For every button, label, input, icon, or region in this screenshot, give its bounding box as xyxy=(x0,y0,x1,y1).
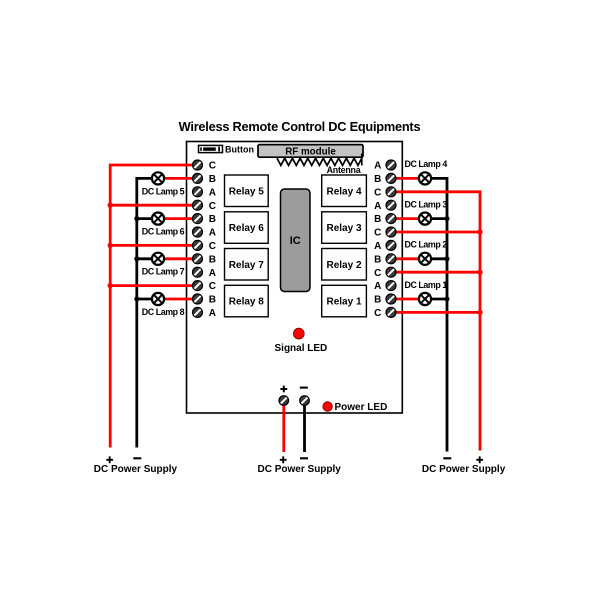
wire: DC Lamp 7 to B terminal xyxy=(163,257,194,260)
svg-text:A: A xyxy=(209,228,216,239)
svg-text:B: B xyxy=(209,174,216,185)
svg-text:DC Lamp 3: DC Lamp 3 xyxy=(405,199,448,209)
terminal B (left group 5) xyxy=(193,173,217,185)
lamp DC Lamp 8 xyxy=(142,293,185,317)
svg-text:RF module: RF module xyxy=(285,147,336,158)
svg-text:DC Power Supply: DC Power Supply xyxy=(422,464,506,475)
svg-text:C: C xyxy=(209,201,216,212)
terminal A (right group 4) xyxy=(374,160,396,172)
svg-text:C: C xyxy=(374,187,381,198)
svg-text:B: B xyxy=(374,214,381,225)
terminal A (right group 3) xyxy=(374,200,396,212)
junction red bus left xyxy=(108,203,113,208)
wire: power + red middle xyxy=(282,401,285,453)
terminal A (left group 7) xyxy=(193,267,217,279)
lamp DC Lamp 7 xyxy=(142,253,185,277)
lamp DC Lamp 5 xyxy=(142,172,185,196)
button S1 xyxy=(199,144,255,154)
wire: DC Lamp 8 to B terminal xyxy=(163,298,194,301)
svg-text:A: A xyxy=(374,281,381,292)
svg-text:IC: IC xyxy=(290,235,301,247)
power terminal + xyxy=(279,386,289,406)
svg-text:C: C xyxy=(209,161,216,172)
svg-text:Relay 7: Relay 7 xyxy=(229,260,264,271)
wire: DC Lamp 3 to black bus xyxy=(430,217,447,220)
junction black bus left xyxy=(134,297,139,302)
svg-text:Relay 6: Relay 6 xyxy=(229,223,264,234)
DC power supply left xyxy=(94,456,178,475)
relay K6 xyxy=(225,212,269,244)
svg-text:Relay 3: Relay 3 xyxy=(326,223,361,234)
terminal C (right group 4) xyxy=(374,187,396,199)
wire: red C-row feed left xyxy=(110,204,194,207)
terminal B (right group 3) xyxy=(374,214,396,226)
lamp DC Lamp 2 xyxy=(405,240,448,265)
terminal C (left group 6) xyxy=(193,200,217,212)
terminal A (left group 6) xyxy=(193,227,217,239)
wire: DC Lamp 6 to B terminal xyxy=(163,217,194,220)
power LED D2 xyxy=(323,402,387,413)
wire: black negative bus left xyxy=(137,178,153,447)
lamp DC Lamp 3 xyxy=(405,199,448,224)
svg-text:Relay 1: Relay 1 xyxy=(326,297,361,308)
svg-text:A: A xyxy=(209,268,216,279)
svg-text:C: C xyxy=(374,228,381,239)
board outline xyxy=(187,142,403,414)
terminal C (right group 3) xyxy=(374,227,396,239)
wire: B terminal to DC Lamp 3 xyxy=(395,217,420,220)
relay K2 xyxy=(322,249,367,281)
wire: red C-row feed left xyxy=(110,244,194,247)
terminal B (right group 4) xyxy=(374,173,396,185)
lamp DC Lamp 4 xyxy=(405,159,448,184)
svg-text:DC Lamp 2: DC Lamp 2 xyxy=(405,240,448,250)
relay K7 xyxy=(225,249,269,281)
svg-text:DC Lamp 5: DC Lamp 5 xyxy=(142,186,185,196)
svg-text:Power LED: Power LED xyxy=(335,402,388,413)
terminal C (left group 7) xyxy=(193,240,217,252)
RF module U2 xyxy=(258,145,363,158)
svg-text:Antenna: Antenna xyxy=(327,165,361,175)
svg-text:DC Lamp 6: DC Lamp 6 xyxy=(142,227,185,237)
terminal A (left group 5) xyxy=(193,187,217,199)
terminal C (left group 8) xyxy=(193,281,217,293)
terminal C (right group 1) xyxy=(374,307,396,319)
svg-text:Button: Button xyxy=(225,144,254,154)
terminal C (right group 2) xyxy=(374,267,396,279)
wire: B terminal to DC Lamp 4 xyxy=(395,177,420,180)
svg-text:A: A xyxy=(209,308,216,319)
svg-text:B: B xyxy=(209,295,216,306)
signal LED D1 xyxy=(275,328,328,354)
wire: DC Lamp 6 to black bus xyxy=(137,217,153,220)
svg-text:DC Lamp 8: DC Lamp 8 xyxy=(142,307,185,317)
terminal B (right group 2) xyxy=(374,254,396,266)
junction black bus right xyxy=(445,297,450,302)
svg-text:Signal LED: Signal LED xyxy=(275,343,328,354)
wire: red positive bus right xyxy=(395,192,480,451)
svg-text:Relay 8: Relay 8 xyxy=(229,297,264,308)
svg-text:Wireless Remote Control DC Equ: Wireless Remote Control DC Equipments xyxy=(179,119,421,134)
junction red bus left xyxy=(108,283,113,288)
wire: B terminal to DC Lamp 2 xyxy=(395,257,420,260)
svg-text:Relay 2: Relay 2 xyxy=(326,260,361,271)
svg-text:C: C xyxy=(374,268,381,279)
svg-text:C: C xyxy=(209,241,216,252)
svg-text:C: C xyxy=(374,308,381,319)
svg-text:DC Lamp 4: DC Lamp 4 xyxy=(405,159,448,169)
svg-text:Relay 5: Relay 5 xyxy=(229,186,264,197)
svg-text:Relay 4: Relay 4 xyxy=(326,186,361,197)
svg-text:A: A xyxy=(374,201,381,212)
wire: red C-row feed right xyxy=(395,311,480,314)
wire: DC Lamp 1 to black bus xyxy=(430,298,447,301)
wire: DC Lamp 7 to black bus xyxy=(137,257,153,260)
svg-text:DC Lamp 1: DC Lamp 1 xyxy=(405,280,448,290)
power terminal - xyxy=(300,388,310,406)
lamp DC Lamp 6 xyxy=(142,213,185,237)
IC U1 xyxy=(281,189,311,292)
junction black bus left xyxy=(134,256,139,261)
relay K1 xyxy=(322,285,367,317)
svg-text:A: A xyxy=(374,241,381,252)
svg-text:B: B xyxy=(374,254,381,265)
relay K4 xyxy=(322,175,367,207)
terminal B (left group 8) xyxy=(193,294,217,306)
wire: red C-row feed right xyxy=(395,231,480,234)
wire: DC Lamp 8 to black bus xyxy=(137,298,153,301)
terminal A (left group 8) xyxy=(193,307,217,319)
wire: red positive bus left xyxy=(110,165,194,448)
wire: black negative bus right xyxy=(430,178,447,451)
relay K5 xyxy=(225,175,269,207)
svg-text:C: C xyxy=(209,281,216,292)
wire: B terminal to DC Lamp 1 xyxy=(395,298,420,301)
DC power supply right xyxy=(422,456,506,475)
wire: power - black middle xyxy=(303,401,306,453)
terminal B (left group 6) xyxy=(193,214,217,226)
junction red bus right xyxy=(477,310,482,315)
junction red bus right xyxy=(477,229,482,234)
svg-text:B: B xyxy=(374,174,381,185)
relay K8 xyxy=(225,285,269,317)
svg-text:DC Power Supply: DC Power Supply xyxy=(94,464,178,475)
svg-text:DC Lamp 7: DC Lamp 7 xyxy=(142,267,185,277)
wire: DC Lamp 5 to B terminal xyxy=(163,177,194,180)
terminal A (right group 2) xyxy=(374,240,396,252)
wire: DC Lamp 2 to black bus xyxy=(430,257,447,260)
svg-text:DC Power Supply: DC Power Supply xyxy=(258,464,342,475)
junction black bus right xyxy=(445,216,450,221)
svg-text:B: B xyxy=(209,214,216,225)
terminal B (left group 7) xyxy=(193,254,217,266)
terminal B (right group 1) xyxy=(374,294,396,306)
DC power supply middle xyxy=(258,456,342,475)
wire: red C-row feed right xyxy=(395,271,480,274)
relay K3 xyxy=(322,212,367,244)
antenna xyxy=(277,154,362,175)
junction red bus left xyxy=(108,243,113,248)
svg-text:B: B xyxy=(374,295,381,306)
wire: red C-row feed left xyxy=(110,284,194,287)
svg-text:A: A xyxy=(209,187,216,198)
lamp DC Lamp 1 xyxy=(405,280,448,305)
svg-text:A: A xyxy=(374,161,381,172)
terminal C (left group 5) xyxy=(193,160,217,172)
junction black bus left xyxy=(134,216,139,221)
terminal A (right group 1) xyxy=(374,281,396,293)
svg-text:B: B xyxy=(209,254,216,265)
junction black bus right xyxy=(445,256,450,261)
junction red bus right xyxy=(477,270,482,275)
